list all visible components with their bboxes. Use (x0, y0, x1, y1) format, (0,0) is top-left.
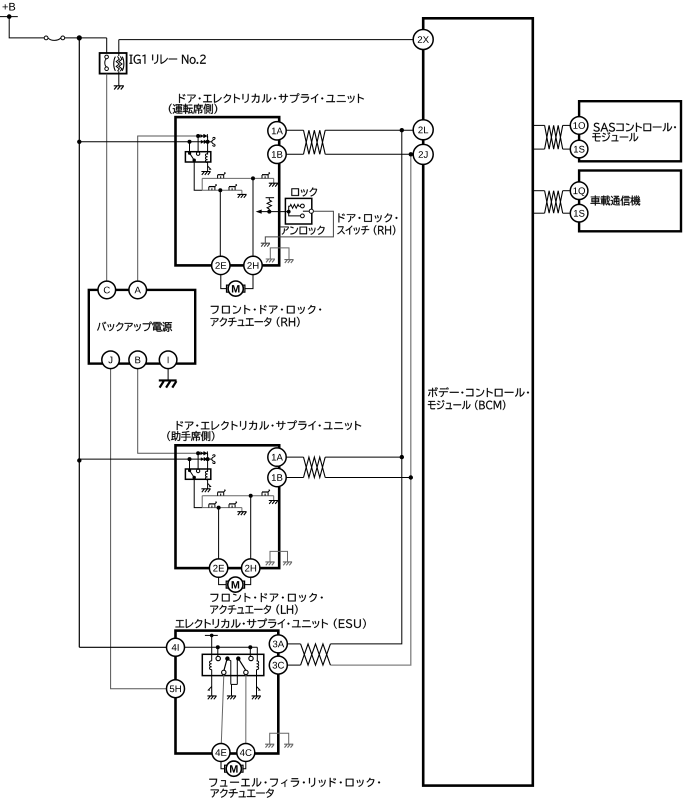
ground unit2 bracket right (283, 562, 292, 565)
wire A to unit1 feed (138, 136, 198, 281)
transistor unit2 Q2 (262, 490, 270, 496)
wire unit1 bus feed (79, 141, 189, 143)
wire unit1 lower rail end (241, 190, 243, 194)
junction CAN-H unit2 (400, 455, 404, 459)
wire unit1 lower rail (202, 189, 242, 191)
connector 2E unit2 (209, 559, 227, 577)
wire motor1 right lead (245, 275, 253, 289)
wire unit2 diode junction (207, 453, 209, 472)
junction bus to unit2 feed (77, 458, 81, 462)
wire unit2 twist to bus (325, 456, 402, 458)
diode unit1 D1 (200, 134, 203, 138)
connector 4C (237, 744, 255, 762)
connector 2H unit2 (242, 559, 260, 577)
junction unit1 feed top (196, 134, 200, 138)
connector 1A unit2 (268, 448, 286, 466)
wire unit2 upper rail (202, 495, 274, 497)
relay unit2 coil (205, 471, 207, 480)
ground unit2 lower rail (237, 512, 246, 515)
wire tbar to left coil (211, 635, 213, 661)
label actuator RH line2 (211, 317, 300, 327)
wire relay contact pin up (106, 38, 108, 53)
wire unit2 2H drop (250, 496, 252, 559)
wire unit2 1B to twist (286, 477, 303, 479)
ground ESU bracket right (284, 744, 293, 747)
wire unit1 1B to twist (286, 153, 303, 155)
relay IG1 coil (114, 57, 124, 71)
transistor unit1 Q2 (262, 173, 270, 179)
wire ESU 4C drop (245, 675, 247, 744)
wire twist to 1S (563, 148, 571, 150)
relay unit2 box (185, 469, 210, 479)
label lock (291, 188, 317, 197)
twisted pair BCM-SAS (545, 125, 563, 149)
junction bus to unit1 feed (77, 140, 81, 144)
resistor unit1 pull-up (266, 197, 275, 199)
wire switch signal arrow (260, 211, 289, 213)
wire unit1 1A to twist (286, 129, 303, 131)
relay IG1 contact (105, 55, 109, 59)
label SAS line2 (592, 132, 638, 141)
pigtail unit1 (212, 137, 215, 146)
wire unit2 diode segs (198, 452, 208, 454)
ground unit2 relay driver (201, 489, 210, 492)
wire twist to 1O (563, 124, 571, 126)
junction unit1 feed bottom (188, 140, 192, 144)
connector 2E unit1 (212, 256, 230, 274)
junction ESU feed right (248, 645, 252, 649)
contact switch common (309, 209, 313, 213)
wire twist to 1S TCU (563, 212, 571, 214)
connector J (102, 351, 120, 369)
connector A (129, 281, 147, 299)
wire unit1 twist to 2L (325, 129, 413, 131)
diode unit2 D1 (200, 451, 203, 455)
wire relay coil to ground (118, 74, 120, 86)
node +B battery terminal (0, 16, 18, 18)
junction CAN-L 2J (409, 152, 413, 156)
door lock switch RH box (285, 198, 311, 224)
diode unit2 D2 (204, 451, 207, 455)
wire unit2 rail link (201, 496, 203, 508)
wire ESU right coil driver (256, 676, 258, 696)
wire motor3 right lead (243, 762, 246, 769)
wire unit1 rail link (201, 178, 203, 190)
connector B (129, 351, 147, 369)
door electrical supply unit LH box (176, 445, 280, 568)
connector I (159, 351, 177, 369)
wire unit1 2E drop (219, 190, 221, 256)
label actuator RH line1 (211, 305, 321, 314)
ground unit1 lower rail (237, 194, 246, 197)
junction unit2 feed bottom (188, 457, 192, 461)
wire relay coil to BCM 2X (119, 39, 414, 41)
wire 3A to twist (288, 643, 301, 645)
connector 1S SAS (570, 140, 588, 158)
wire unit2 relay output (194, 478, 202, 508)
wire unit2 ground bracket (270, 551, 288, 561)
twisted pair BCM-TCU (545, 191, 563, 214)
relay ESU contact left (216, 656, 220, 660)
wire unit1 upper rail (202, 177, 274, 179)
relay ESU coil right (257, 661, 259, 670)
relay unit2 contact (197, 453, 199, 469)
twisted pair unit2 (304, 457, 326, 477)
junction node main bus (77, 35, 82, 40)
wire unit2 bus feed (79, 458, 189, 460)
label actuator LH line2 (210, 605, 297, 615)
ground below IG1 relay (114, 86, 124, 90)
wire main bus left vertical (78, 38, 80, 647)
motor front door lock actuator LH brackets (226, 581, 244, 588)
connector 1O (570, 117, 588, 135)
relay IG1 No.2 box (100, 53, 127, 74)
wire unit2 lower rail end (241, 508, 243, 512)
ground unit2 upper rail (269, 501, 278, 504)
wire ESU common posts (228, 660, 230, 685)
label unit1 driver side (169, 104, 217, 114)
wire bus to 4I (79, 646, 167, 648)
ground ESU right (252, 696, 261, 699)
transistor unit1 driver (208, 166, 211, 169)
connector 1Q (570, 182, 588, 200)
diode unit2 D4 (204, 457, 207, 461)
label unit2 title (177, 420, 361, 430)
transistor unit2 driver (208, 483, 211, 486)
wire ESU 4E drop (221, 675, 224, 744)
connector 2J (413, 144, 433, 164)
wire unit1 2H drop (252, 178, 254, 256)
connector 1B unit1 (268, 145, 286, 163)
connector C (98, 281, 116, 299)
wire unit2 2E drop (218, 508, 220, 559)
connector 5H (167, 680, 185, 698)
transistor unit1 Q1 (218, 173, 226, 179)
relay unit1 coil (205, 154, 207, 163)
label fuel actuator line2 (211, 789, 274, 798)
wire unit1 upper rail end (273, 178, 275, 183)
wire BCM to TCU pair bottom (533, 212, 545, 214)
ground ESU bracket left (265, 744, 274, 747)
wire BCM to SAS pair bottom (533, 148, 545, 150)
ground unit1 upper rail (269, 183, 278, 186)
wire switch lower (289, 212, 301, 216)
wire CAN-H bus vertical (330, 130, 401, 644)
junction resistor on signal (267, 210, 271, 214)
junction unit2 feed top (196, 451, 200, 455)
label ESU title (176, 619, 366, 629)
relay ESU coil left (210, 661, 212, 670)
ground unit1 bracket right (284, 260, 293, 263)
transistor ESU right (257, 687, 260, 691)
wire motor2 right lead (245, 577, 251, 584)
junction unit2 2H drop (249, 494, 253, 498)
wire unit1 diode junction (207, 136, 209, 155)
wire I to ground (167, 369, 169, 380)
relay ESU box (202, 654, 263, 675)
wire motor3 left lead (221, 762, 225, 769)
wire +B down to fuse (9, 17, 44, 38)
wire CAN-L bus vertical (330, 154, 410, 665)
wire ESU feed line (185, 646, 257, 648)
ground door lock switch (261, 243, 270, 246)
junction unit1 2H drop (251, 176, 255, 180)
junction CAN-L unit2 (409, 475, 413, 479)
junction switch common-left (287, 210, 291, 214)
transistor unit2 Q3 (209, 502, 217, 508)
wire 3C to twist (288, 664, 301, 666)
telematics unit box (579, 171, 681, 232)
diode unit1 D3 (201, 140, 204, 144)
connector 4E (212, 744, 230, 762)
connector 4I (167, 638, 185, 656)
junction unit1 2E drop (218, 188, 222, 192)
wire BCM to SAS pair top (533, 124, 545, 126)
connector 3A (269, 635, 287, 653)
diode unit1 D2 (204, 134, 207, 138)
label door lock switch line1 (339, 213, 398, 222)
label BCM line2 (428, 400, 505, 410)
junction CAN-H 2L (400, 128, 404, 132)
diode unit2 D3 (201, 457, 204, 461)
transistor ESU left (208, 687, 211, 691)
junction unit2 2E drop (217, 506, 221, 510)
wire unit2 twist to bus L (325, 477, 411, 479)
relay unit1 box (185, 152, 210, 162)
wire switch arm (303, 210, 309, 212)
SAS control module box (579, 101, 681, 161)
ground ESU left (207, 696, 216, 699)
wire unit2 1A to twist (286, 456, 303, 458)
wire B to unit2 feed (138, 369, 198, 454)
label unlock (281, 226, 325, 235)
connector 1S TCU (570, 204, 588, 222)
connector 1A unit1 (268, 122, 286, 140)
BCM box body control module (423, 18, 533, 785)
power tick T-bar ESU (205, 634, 218, 636)
door electrical supply unit RH box (176, 117, 280, 265)
wire ESU left coil driver (211, 676, 213, 696)
label unit1 title (179, 93, 364, 103)
motor fuel filler lid lock actuator brackets (225, 765, 243, 772)
wire unit1 ground bracket (270, 248, 289, 260)
transistor unit2 Q1 (218, 490, 226, 496)
connector 1B unit2 (268, 468, 286, 486)
motor front door lock actuator LH (228, 577, 243, 592)
electrical supply unit ESU box (176, 631, 279, 754)
wire unit2 lower rail (202, 507, 242, 509)
label actuator LH line1 (211, 593, 323, 602)
wire fuse to relay (65, 37, 107, 39)
wire switch to ground (265, 211, 333, 243)
wire relay contact output to C (106, 74, 108, 282)
wire unit1 diode segs (198, 135, 208, 137)
junction ESU feed left (216, 645, 220, 649)
label unit2 passenger side (167, 431, 214, 441)
wire unit1 relay output (194, 160, 202, 190)
wire unit1 twist to 2J (325, 153, 413, 155)
wire ESU ground bracket (270, 733, 289, 744)
label fuel actuator line1 (209, 778, 380, 787)
transistor unit2 Q4 (229, 502, 237, 508)
label BCM line1 (428, 387, 529, 397)
label door lock switch line2 (337, 225, 395, 235)
motor front door lock actuator RH brackets (227, 285, 245, 292)
ground unit1 bracket left (266, 259, 275, 262)
backup power unit box (89, 290, 195, 364)
transistor unit1 Q4 (229, 185, 237, 191)
resistor door lock switch (289, 204, 301, 211)
twisted pair ESU (301, 644, 331, 665)
pigtail unit2 (212, 455, 215, 464)
connector 2X (413, 30, 433, 50)
label IG1 relay No.2 (130, 55, 206, 64)
ground ESU common (227, 696, 236, 699)
diode unit1 D4 (204, 140, 207, 144)
transistor unit1 Q3 (209, 185, 217, 191)
wire J to 5H (111, 369, 167, 689)
wire BCM to TCU pair top (533, 190, 545, 192)
fuse F1 (circuit breaker symbol) (44, 36, 48, 40)
contact lock (301, 204, 305, 208)
wire ESU contact feeds (217, 647, 219, 656)
ground unit2 bracket left (265, 562, 274, 565)
connector 3C (269, 656, 287, 674)
wire unit2 coil to transistor (207, 480, 209, 489)
relay unit1 contact (197, 136, 199, 152)
wire twist to 1Q (563, 190, 571, 192)
wire unit1 coil to transistor (207, 163, 209, 172)
wire unit2 upper rail end (273, 496, 275, 501)
relay ESU contact right (249, 656, 253, 660)
motor fuel filler lid lock actuator (226, 761, 241, 776)
ground unit1 relay driver (201, 172, 210, 175)
connector 2H unit1 (244, 256, 262, 274)
connector 2L (413, 120, 433, 140)
chassis ground below I (159, 379, 177, 381)
motor front door lock actuator RH (228, 281, 243, 296)
contact unlock (301, 214, 305, 218)
label backup power (97, 322, 172, 332)
twisted pair unit1 (304, 130, 326, 154)
wire motor1 left lead (221, 275, 227, 289)
label SAS line1 (593, 123, 676, 132)
label TCU (591, 196, 641, 206)
wire motor2 left lead (219, 577, 227, 584)
